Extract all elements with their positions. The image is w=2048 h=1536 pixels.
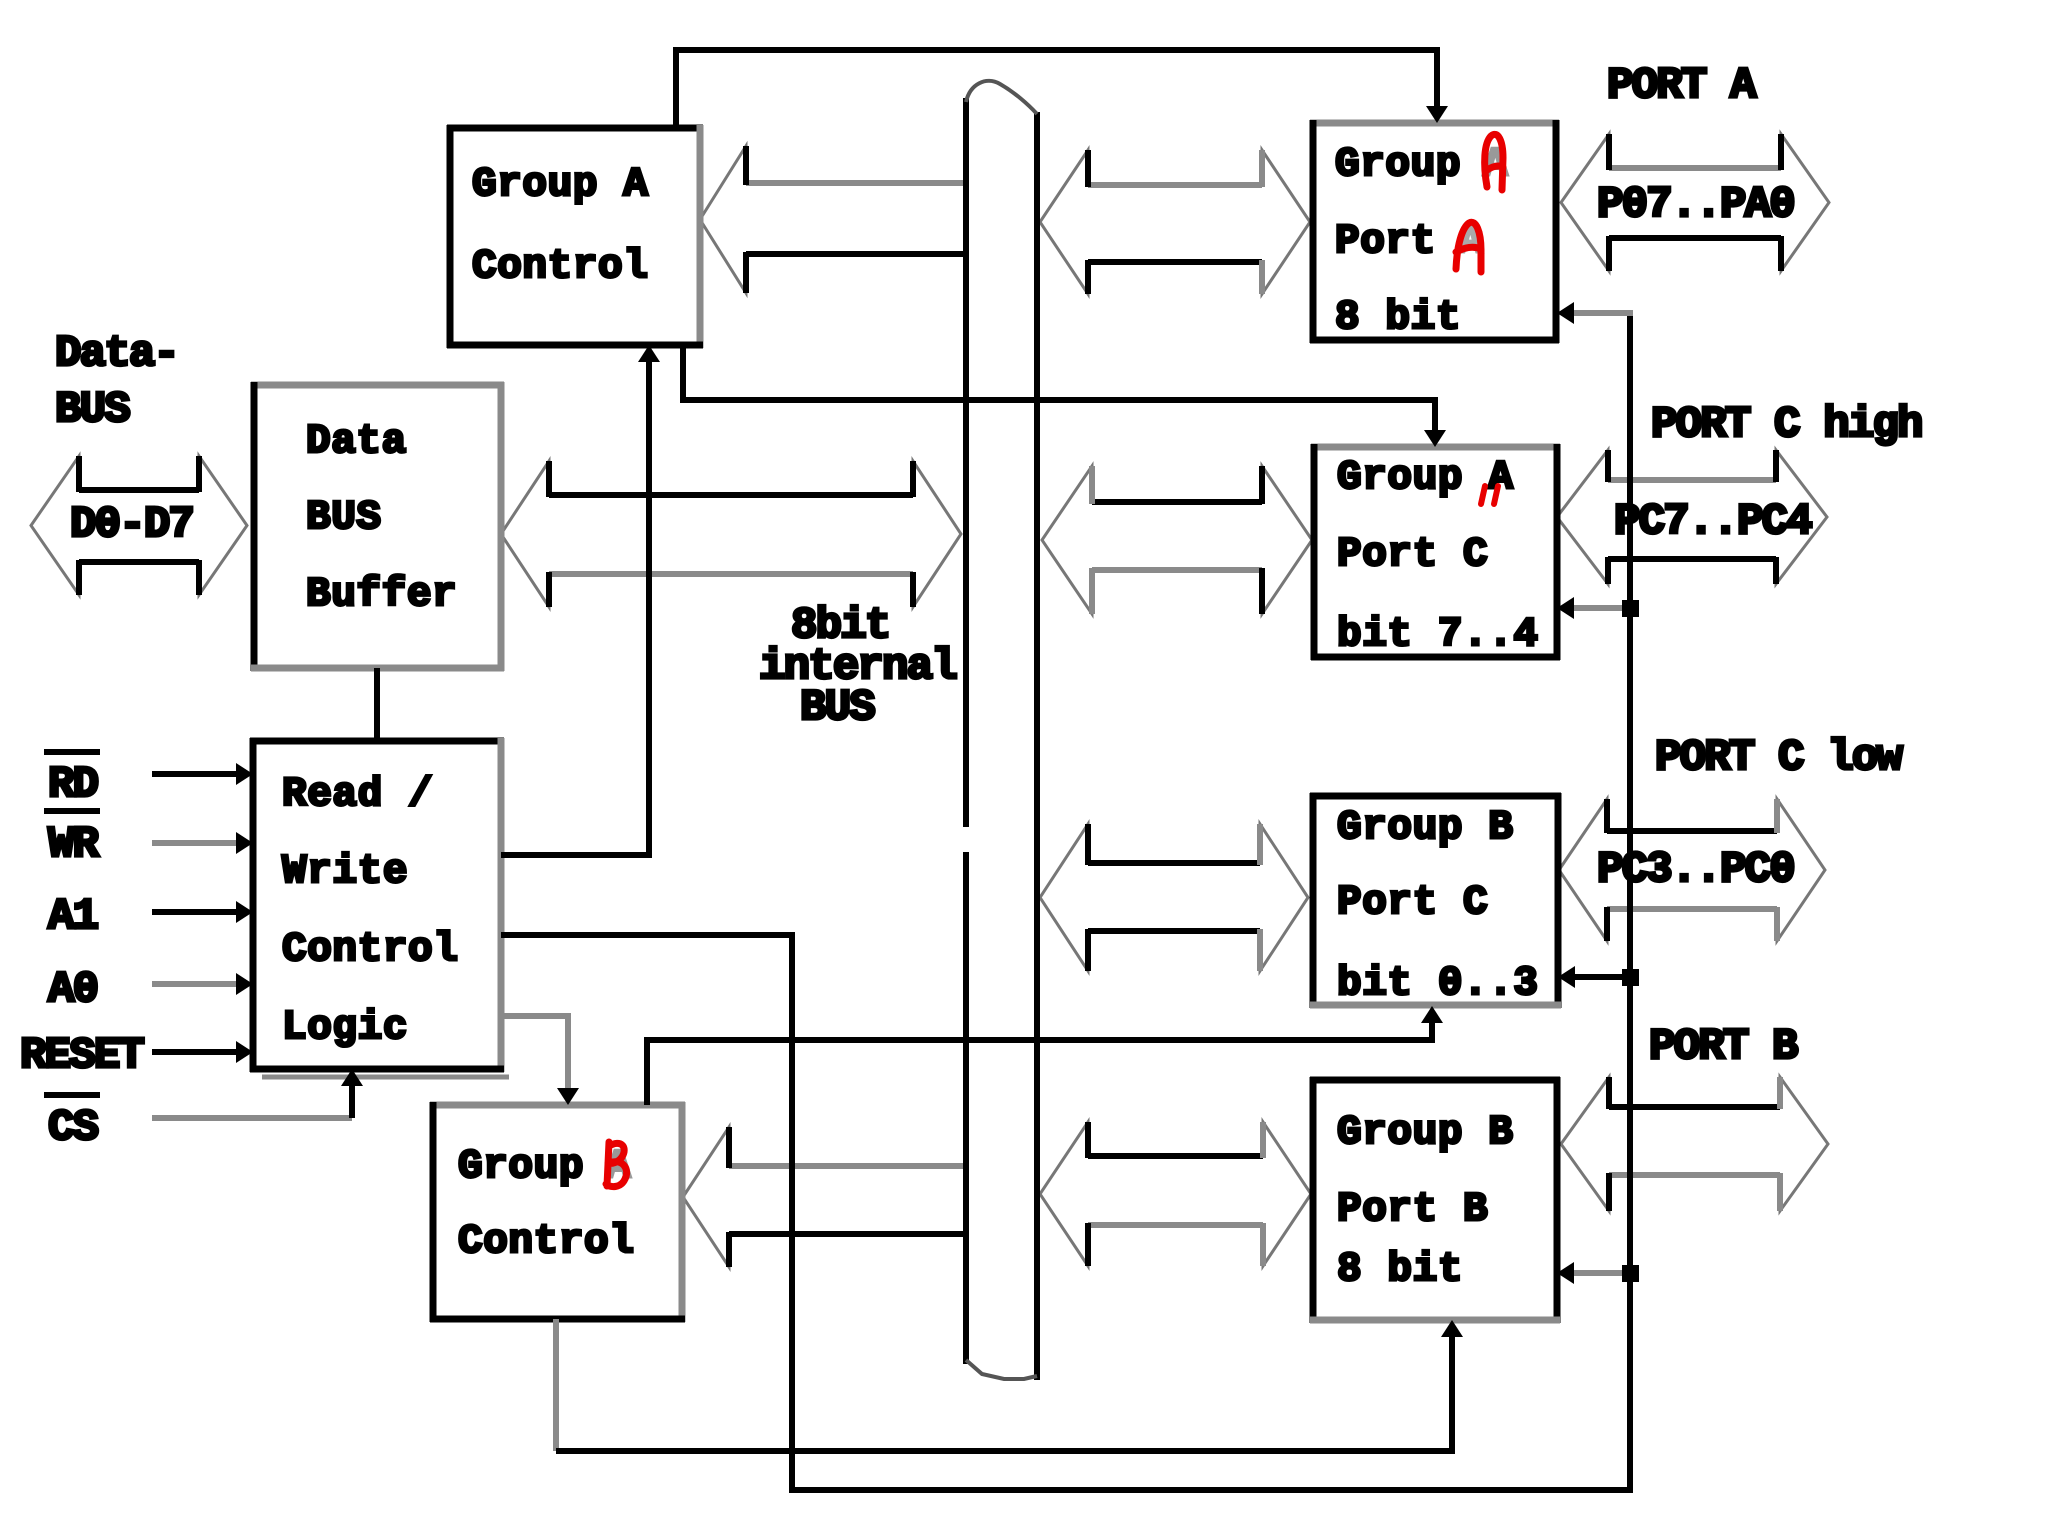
block Group B Port B 8 bit <box>1310 1077 1560 1323</box>
arrow Data-BUS D0-D7 (external left) <box>31 456 247 595</box>
svg-text:PC3..PC0: PC3..PC0 <box>1597 845 1794 895</box>
svg-text:Port C: Port C <box>1337 532 1488 578</box>
wire Group A Control top to Port A box top <box>676 50 1448 128</box>
svg-text:Control: Control <box>472 244 648 290</box>
signal RD line <box>152 763 253 785</box>
svg-text:D0-D7: D0-D7 <box>70 500 193 550</box>
svg-text:Port B: Port B <box>1337 1187 1488 1233</box>
feedback stub into Port C low box <box>1558 966 1639 988</box>
label 8bit internal BUS <box>759 601 956 733</box>
internal bus top cap <box>966 81 1037 114</box>
svg-text:PORT B: PORT B <box>1649 1022 1798 1072</box>
arrow internal bus to Group B Control <box>683 1127 965 1267</box>
arrow PORT C high pins <box>1557 450 1827 584</box>
feedback stub into Port A box (8 bit row) <box>1557 302 1633 324</box>
svg-text:bit 0..3: bit 0..3 <box>1337 961 1539 1007</box>
signal A1 line <box>152 901 253 923</box>
svg-text:Group B: Group B <box>1337 1110 1513 1156</box>
wire Read/Write Logic to Group B Control top <box>501 1016 579 1105</box>
svg-text:WR: WR <box>48 820 100 870</box>
wire Read/Write Logic to Group A Control bottom <box>501 345 660 855</box>
svg-text:BUS: BUS <box>800 683 875 733</box>
svg-text:Data-: Data- <box>55 329 178 379</box>
svg-text:CS: CS <box>48 1103 99 1153</box>
arrow PORT A pins <box>1561 134 1829 271</box>
block Group B Port C bit 0..3 <box>1310 793 1561 1008</box>
svg-text:BUS: BUS <box>55 385 130 435</box>
block Data BUS Buffer <box>251 382 504 671</box>
block Group A Port C bit 7..4 <box>1311 444 1560 660</box>
block Group B Control <box>430 1102 685 1322</box>
svg-text:Data: Data <box>306 419 407 465</box>
svg-text:Control: Control <box>458 1219 634 1265</box>
signal WR line <box>152 832 253 854</box>
arrow internal bus to Group A Port A <box>1040 150 1310 294</box>
internal bus right edge <box>1034 112 1040 1380</box>
svg-text:Group A: Group A <box>1337 455 1513 501</box>
arrow internal bus to Group A Port C high <box>1042 466 1312 614</box>
arrow PORT C low pins <box>1559 799 1825 941</box>
svg-text:PORT C low: PORT C low <box>1655 733 1903 783</box>
label Data-BUS <box>55 329 178 435</box>
svg-text:PC7..PC4: PC7..PC4 <box>1614 497 1812 547</box>
svg-text:Group: Group <box>1335 142 1461 188</box>
red annotation A (Port A row, Port A box) <box>1456 222 1481 272</box>
svg-text:P07..PA0: P07..PA0 <box>1597 180 1794 230</box>
svg-text:Logic: Logic <box>282 1005 408 1051</box>
internal bus bottom cap <box>966 1360 1037 1379</box>
svg-text:Buffer: Buffer <box>306 572 457 618</box>
svg-text:Port: Port <box>1335 219 1436 265</box>
svg-text:RESET: RESET <box>20 1031 144 1081</box>
block Group A Port A 8 bit <box>1310 120 1559 343</box>
label WR with overbar <box>44 808 100 870</box>
signal A0 line <box>152 973 253 995</box>
svg-text:Group: Group <box>458 1144 584 1190</box>
wire Read/Write Logic to right-side feedback line <box>501 313 1630 1490</box>
svg-text:PORT A: PORT A <box>1607 61 1757 111</box>
svg-text:RD: RD <box>48 760 98 810</box>
feedback stub into Port C high box <box>1557 597 1639 619</box>
svg-text:A1: A1 <box>48 892 98 942</box>
svg-text:8 bit: 8 bit <box>1337 1247 1463 1293</box>
svg-text:Write: Write <box>282 849 408 895</box>
wire Group B Control bottom to Port B box bottom <box>556 1319 1463 1451</box>
signal CS line <box>152 1069 363 1118</box>
internal bus left edge (with break) <box>963 98 969 1364</box>
svg-text:8 bit: 8 bit <box>1335 295 1461 341</box>
arrow internal bus to Group B Port B <box>1040 1122 1311 1266</box>
svg-text:Control: Control <box>282 927 458 973</box>
block Group A Control <box>447 125 703 348</box>
svg-text:PORT C high: PORT C high <box>1651 400 1922 450</box>
wire Group B Control top to Port C low box bottom <box>647 1006 1443 1105</box>
svg-text:Port C: Port C <box>1337 880 1488 926</box>
wire Data BUS Buffer to Read/Write Logic <box>374 668 380 741</box>
svg-text:bit 7..4: bit 7..4 <box>1337 612 1539 658</box>
label CS with overbar <box>44 1092 100 1153</box>
arrow internal bus to Group B Port C low <box>1040 824 1308 971</box>
wire Group A Control bottom-right to Port C high box top <box>683 345 1446 447</box>
block Read / Write Control Logic <box>250 738 504 1072</box>
svg-text:Group B: Group B <box>1337 805 1513 851</box>
label RD with overbar <box>44 749 100 810</box>
arrow internal bus to Group A Control <box>700 146 965 293</box>
svg-text:BUS: BUS <box>306 495 382 541</box>
red annotation B (Group B Control box) <box>606 1142 627 1187</box>
signal RESET line <box>152 1041 253 1063</box>
red annotation A (Group A row, Port A box) <box>1485 134 1503 190</box>
svg-text:Read /: Read / <box>282 772 433 818</box>
red annotation ticks (Port C high box) <box>1481 486 1498 504</box>
Read/Write box shadow <box>262 1075 509 1080</box>
svg-text:Group A: Group A <box>472 162 648 208</box>
feedback stub into Port B box <box>1557 1262 1639 1284</box>
arrow Data BUS Buffer to internal bus <box>501 461 961 607</box>
svg-text:A0: A0 <box>48 965 97 1015</box>
arrow PORT B pins <box>1561 1077 1828 1211</box>
